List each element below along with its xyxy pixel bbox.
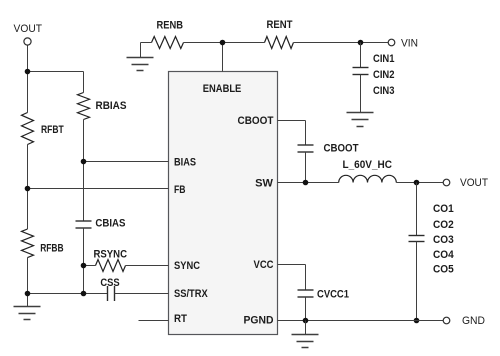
wire VOUT node down to CO xyxy=(416,183,418,236)
wire PGND rail xyxy=(278,320,444,322)
svg-text:CIN1: CIN1 xyxy=(373,53,395,65)
svg-text:CO1: CO1 xyxy=(433,203,454,215)
node junction dot SS xyxy=(81,291,87,297)
svg-text:RBIAS: RBIAS xyxy=(96,100,127,112)
wire CVCC1 to PGND rail xyxy=(305,297,307,321)
svg-text:SW: SW xyxy=(255,178,273,190)
wire CBIAS to SYNC node xyxy=(83,228,85,266)
resistor RBIAS xyxy=(78,93,90,120)
svg-text:RFBT: RFBT xyxy=(41,124,64,136)
terminal VOUT (right) xyxy=(443,179,450,186)
wire RFBT to FB node xyxy=(27,145,29,189)
wire down to RBIAS xyxy=(83,72,85,93)
svg-text:SYNC: SYNC xyxy=(174,260,200,272)
ground (under CVCC1) xyxy=(292,335,319,348)
wire RT stub xyxy=(139,320,169,322)
capacitor CBIAS xyxy=(76,221,92,228)
svg-text:RENB: RENB xyxy=(157,20,184,32)
svg-text:RSYNC: RSYNC xyxy=(94,249,128,261)
svg-text:CVCC1: CVCC1 xyxy=(317,289,349,301)
svg-text:CIN3: CIN3 xyxy=(373,85,395,97)
svg-text:SS/TRX: SS/TRX xyxy=(174,288,208,300)
resistor RENB xyxy=(152,37,184,49)
wire SS/TRX rail left xyxy=(28,293,108,295)
wire CSS to SS/TRX pin xyxy=(115,293,169,295)
svg-text:ENABLE: ENABLE xyxy=(203,83,242,95)
wire RSYNC to SYNC pin xyxy=(126,265,169,267)
terminal VIN xyxy=(388,39,395,46)
svg-text:CSS: CSS xyxy=(100,277,119,289)
wire inductor to VOUT terminal xyxy=(396,182,443,184)
svg-text:FB: FB xyxy=(174,184,186,196)
capacitor CIN1 CIN2 CIN3 xyxy=(353,68,369,75)
node VIN junction xyxy=(358,40,364,46)
wire FB node to RFBB xyxy=(27,189,29,230)
capacitor CSS xyxy=(108,286,115,301)
ground (top, at RENB) xyxy=(140,43,142,58)
svg-text:RT: RT xyxy=(174,313,187,325)
svg-text:CBOOT: CBOOT xyxy=(238,115,274,127)
resistor RSYNC xyxy=(96,260,126,272)
wire CBOOT drop xyxy=(305,121,307,146)
ground (left, under RFBB) xyxy=(14,307,41,320)
svg-text:CO5: CO5 xyxy=(433,263,454,275)
wire CBOOT pin xyxy=(278,120,306,122)
wire BIAS node down to CBIAS xyxy=(83,162,85,222)
terminal GND xyxy=(443,317,450,324)
wire CBOOT to SW node xyxy=(305,152,307,183)
svg-text:CBOOT: CBOOT xyxy=(324,143,359,155)
wire node VOUT down to RFBT xyxy=(27,72,29,113)
wire RENB to RENT xyxy=(184,42,265,44)
wire ENABLE drop xyxy=(222,43,224,72)
wire VOUT node to RBIAS column xyxy=(28,71,84,73)
svg-text:CO4: CO4 xyxy=(433,249,455,261)
wire ground stub left xyxy=(27,294,29,307)
node GND junction xyxy=(414,318,420,324)
node junction dot BIAS xyxy=(81,159,87,165)
wire VCC pin xyxy=(278,264,306,266)
wire CIN to ground xyxy=(360,75,362,113)
node SW junction xyxy=(303,180,309,186)
wire SYNC node down to SS node xyxy=(83,266,85,294)
node junction dot SS rail left xyxy=(25,291,31,297)
wire RENT to VIN terminal xyxy=(294,42,389,44)
svg-text:CO2: CO2 xyxy=(433,219,454,231)
capacitor CBOOT xyxy=(298,145,314,152)
inductor L_60V_HC xyxy=(339,175,397,182)
wire ground to RENB xyxy=(141,42,152,44)
wire SYNC node to RSYNC xyxy=(84,265,96,267)
svg-text:RENT: RENT xyxy=(267,19,293,31)
terminal VOUT (left) xyxy=(24,38,31,45)
node junction dot VOUT top xyxy=(25,69,31,75)
svg-text:CBIAS: CBIAS xyxy=(95,217,125,229)
svg-text:RFBB: RFBB xyxy=(40,243,63,255)
svg-text:BIAS: BIAS xyxy=(174,157,196,169)
svg-text:VOUT: VOUT xyxy=(460,177,488,189)
node junction dot FB xyxy=(25,186,31,192)
ground (under CIN) xyxy=(347,113,374,127)
resistor RFBT xyxy=(22,113,34,145)
svg-text:VOUT: VOUT xyxy=(14,23,43,35)
svg-text:VCC: VCC xyxy=(254,259,274,271)
svg-text:CO3: CO3 xyxy=(433,234,454,246)
capacitor CO1-CO5 xyxy=(409,236,425,242)
IC U1 body xyxy=(169,72,278,335)
wire FB pin xyxy=(28,188,169,190)
svg-text:PGND: PGND xyxy=(244,315,274,327)
svg-text:GND: GND xyxy=(462,315,485,327)
wire VIN node to CIN xyxy=(360,43,362,68)
node ENABLE junction xyxy=(220,40,226,46)
capacitor CVCC1 xyxy=(298,290,314,297)
resistor RENT xyxy=(265,37,294,49)
wire SW pin xyxy=(278,182,339,184)
wire CO to GND rail xyxy=(416,242,418,321)
node VOUT junction xyxy=(414,180,420,186)
svg-text:CIN2: CIN2 xyxy=(373,69,395,81)
node junction dot SYNC xyxy=(81,263,87,269)
wire PGND ground stub xyxy=(305,321,307,335)
wire RFBB to ground node xyxy=(27,258,29,294)
node PGND junction xyxy=(303,318,309,324)
wire RBIAS to BIAS node xyxy=(83,120,85,162)
svg-text:VIN: VIN xyxy=(401,38,418,50)
wire BIAS pin xyxy=(84,161,169,163)
wire VOUT terminal stub xyxy=(27,45,29,72)
wire VCC drop xyxy=(305,265,307,291)
svg-text:L_60V_HC: L_60V_HC xyxy=(343,159,393,171)
resistor RFBB xyxy=(22,229,34,258)
